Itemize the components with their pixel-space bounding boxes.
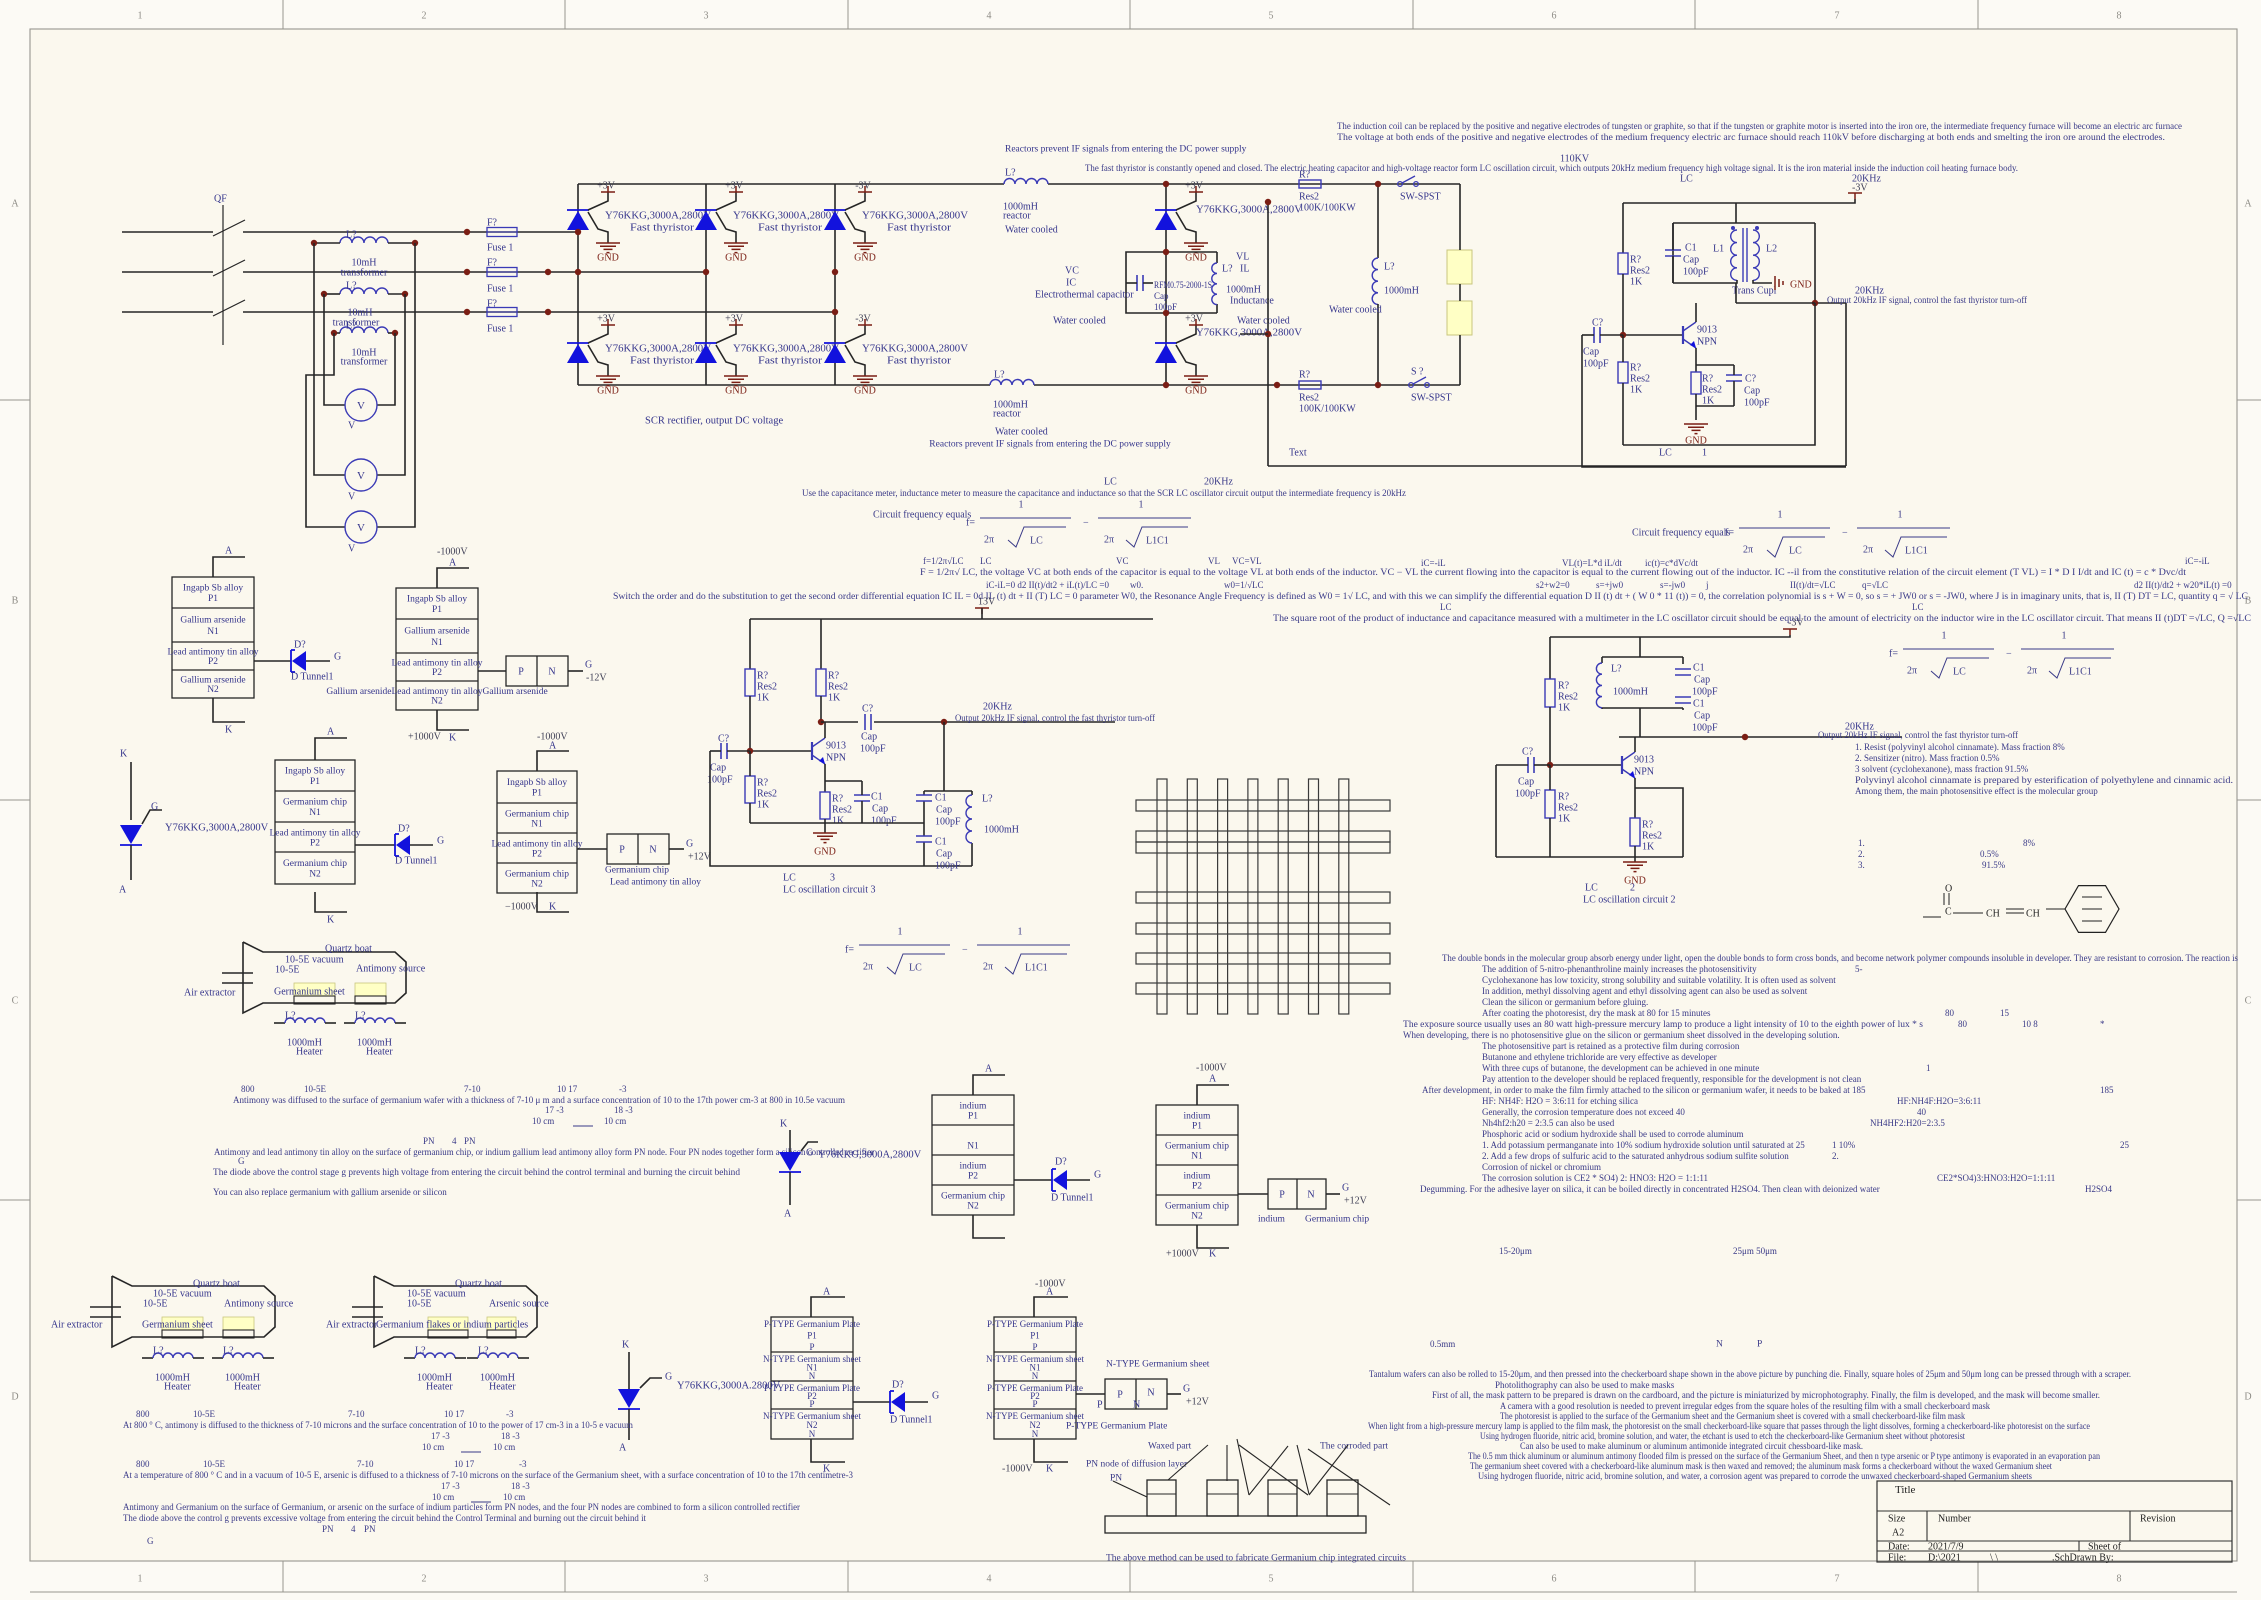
svg-text:Use the capacitance meter, ind: Use the capacitance meter, inductance me… (802, 488, 1406, 498)
svg-text:C1: C1 (1693, 699, 1705, 710)
tunnel diode D? indium1 (1014, 1179, 1052, 1181)
svg-text:Pay attention to the developer: Pay attention to the developer should be… (1482, 1074, 1862, 1084)
svg-text:100pF: 100pF (935, 817, 961, 828)
wire stack E cathode (811, 1439, 845, 1462)
svg-text:L1C1: L1C1 (1146, 536, 1169, 547)
svg-text:1: 1 (138, 11, 143, 22)
svg-text:V: V (357, 400, 365, 412)
capacitor C1 osc2 upper (1675, 669, 1691, 675)
svg-text:2021/7/9: 2021/7/9 (1928, 1542, 1964, 1553)
inductor L? osc2 tank (1596, 663, 1602, 708)
svg-text:Output 20kHz IF signal, contro: Output 20kHz IF signal, control the fast… (955, 713, 1155, 723)
svg-text:Res2: Res2 (1299, 393, 1319, 404)
svg-text:P: P (1032, 1342, 1037, 1352)
svg-text:Fast thyristor: Fast thyristor (758, 356, 823, 367)
wire stack F anode (1034, 1297, 1068, 1317)
svg-text:GND: GND (1624, 876, 1646, 887)
wire osc2 bottom (1496, 856, 1683, 858)
antimony source pedestal 1 (355, 983, 386, 996)
svg-text:3: 3 (704, 11, 709, 22)
svg-text:Germanium chip: Germanium chip (1165, 1201, 1229, 1211)
svg-text:Butanone and ethylene trichlor: Butanone and ethylene trichloride are ve… (1482, 1052, 1717, 1062)
svg-text:P: P (809, 1399, 814, 1409)
svg-text:2π: 2π (1863, 545, 1873, 556)
svg-text:A: A (225, 546, 233, 557)
svg-text:L?: L? (1005, 168, 1016, 179)
reactor L? top (1004, 179, 1048, 184)
heater 3b (467, 1357, 478, 1359)
svg-text:Cap: Cap (1518, 777, 1534, 788)
svg-text:R?: R? (832, 794, 844, 805)
svg-text:R?: R? (1558, 792, 1570, 803)
svg-text:Res2: Res2 (757, 789, 777, 800)
svg-text:GND: GND (1185, 386, 1207, 397)
svg-text:3.: 3. (1858, 860, 1865, 870)
svg-text:4: 4 (987, 1574, 992, 1585)
svg-text:LC: LC (783, 873, 796, 884)
svg-text:Using hydrogen fluoride, nitri: Using hydrogen fluoride, nitric acid, br… (1480, 1431, 1965, 1441)
svg-text:Antimony was diffused to the s: Antimony was diffused to the surface of … (233, 1095, 845, 1105)
tank osc3 vertical (943, 722, 945, 791)
svg-text:LC: LC (1789, 546, 1802, 557)
svg-text:C1: C1 (1693, 663, 1705, 674)
svg-text:Water cooled: Water cooled (1053, 316, 1106, 327)
svg-text:+3V: +3V (597, 181, 616, 192)
svg-text:Lead antimony tin alloy: Lead antimony tin alloy (610, 877, 701, 887)
wire stack F cathode (1034, 1439, 1068, 1462)
svg-text:100pF: 100pF (1583, 359, 1609, 370)
wire gate drive horizontal (1268, 465, 1846, 467)
svg-text:P1: P1 (208, 594, 218, 604)
resistor R? bottom 100K (1299, 381, 1321, 389)
svg-text:The diode above the control st: The diode above the control stage g prev… (213, 1167, 741, 1177)
svg-text:Reactors prevent IF signals fr: Reactors prevent IF signals from enterin… (1005, 143, 1247, 154)
svg-text:1: 1 (1702, 448, 1707, 459)
svg-text:Heater: Heater (426, 1382, 453, 1393)
svg-text:Water cooled: Water cooled (1005, 225, 1058, 236)
svg-text:A2: A2 (1892, 1528, 1904, 1539)
svg-text:Res2: Res2 (1299, 192, 1319, 203)
transformer L1 L2 Trans Cupl (1731, 230, 1737, 280)
svg-text:Y76KKG,3000A,2800V: Y76KKG,3000A,2800V (605, 211, 712, 222)
breaker QF (222, 205, 224, 345)
svg-text:D?: D? (398, 824, 410, 835)
svg-text:GND: GND (597, 386, 619, 397)
svg-text:Germanium chip: Germanium chip (283, 798, 347, 808)
svg-text:V: V (357, 470, 365, 482)
svg-text:P-TYPE Germanium Plate: P-TYPE Germanium Plate (764, 1319, 860, 1329)
svg-text:Res2: Res2 (1558, 692, 1578, 703)
svg-text:Ingapb Sb alloy: Ingapb Sb alloy (285, 767, 345, 777)
svg-text:1000mH: 1000mH (1226, 285, 1261, 296)
resistor R? osc3 base lower (745, 776, 755, 803)
svg-text:10-5E: 10-5E (203, 1459, 225, 1469)
svg-text:q=√LC: q=√LC (1862, 580, 1888, 590)
svg-text:G: G (151, 802, 158, 813)
svg-text:N: N (1032, 1371, 1039, 1381)
capacitor C? osc1 left (1594, 327, 1600, 343)
svg-text:P: P (1032, 1399, 1037, 1409)
svg-text:P1: P1 (1192, 1121, 1202, 1131)
svg-text:800: 800 (136, 1459, 150, 1469)
capacitor C? osc3 base (721, 743, 727, 759)
svg-text:SCR rectifier, output DC volta: SCR rectifier, output DC voltage (645, 416, 783, 427)
svg-text:reactor: reactor (993, 409, 1021, 420)
thyristor top col 4 Y76KKG (1155, 209, 1177, 211)
wire bridge column 4 (1165, 184, 1167, 385)
svg-text:Degumming. For the adhesive la: Degumming. For the adhesive layer on sil… (1420, 1184, 1880, 1194)
svg-text:Res2: Res2 (1642, 831, 1662, 842)
PN box stack F (1076, 1393, 1105, 1395)
resistor R? osc2 left (1549, 637, 1551, 679)
svg-text:L?: L? (1384, 262, 1395, 273)
svg-text:VL: VL (1236, 252, 1249, 263)
svg-text:100pF: 100pF (1515, 789, 1541, 800)
svg-text:C1: C1 (1685, 243, 1697, 254)
svg-text:P: P (1097, 1400, 1103, 1411)
svg-text:17 -3: 17 -3 (431, 1431, 450, 1441)
junction dots bridge (575, 229, 581, 235)
svg-text:V: V (348, 544, 356, 555)
svg-text:H2SO4: H2SO4 (2085, 1184, 2113, 1194)
svg-text:L2: L2 (1766, 244, 1777, 255)
svg-text:18 -3: 18 -3 (614, 1105, 633, 1115)
svg-text:Can also be used to make alumi: Can also be used to make aluminum or alu… (1520, 1441, 1863, 1451)
svg-text:100pF: 100pF (707, 775, 733, 786)
svg-text:The double bonds in the molecu: The double bonds in the molecular group … (1442, 953, 2238, 963)
svg-text:K: K (120, 749, 128, 760)
svg-text:LC: LC (1440, 602, 1452, 612)
svg-text:Size: Size (1888, 1514, 1906, 1525)
junction dots col4 (1163, 249, 1169, 255)
svg-text:18 -3: 18 -3 (501, 1431, 520, 1441)
svg-text:The addition of 5-nitro-phenan: The addition of 5-nitro-phenanthroline m… (1482, 964, 1757, 974)
svg-text:2π: 2π (1743, 545, 1753, 556)
svg-text:N2: N2 (967, 1201, 979, 1211)
svg-text:2. Sensitizer (nitro). Mass fr: 2. Sensitizer (nitro). Mass fraction 0.5… (1855, 753, 2000, 763)
wire osc3 top (750, 618, 1153, 620)
svg-text:Heater: Heater (234, 1382, 261, 1393)
heater 1a (274, 1022, 285, 1024)
pedestal 3b (487, 1317, 516, 1330)
svg-text:−: − (962, 945, 968, 956)
svg-text:f=: f= (966, 518, 975, 529)
svg-text:The square root of the product: The square root of the product of induct… (1273, 613, 2251, 623)
svg-text:Fuse 1: Fuse 1 (487, 243, 513, 254)
svg-text:Among them, the main photosens: Among them, the main photosensitive effe… (1855, 786, 2098, 796)
svg-text:R?: R? (828, 671, 840, 682)
svg-text:+12V: +12V (1344, 1196, 1368, 1207)
svg-text:GND: GND (1185, 253, 1207, 264)
wire bridge column 1 (577, 184, 579, 385)
svg-text:100pF: 100pF (860, 744, 886, 755)
svg-text:+3V: +3V (725, 314, 744, 325)
heater 3a (404, 1357, 415, 1359)
svg-text:8%: 8% (2023, 838, 2036, 848)
svg-text:D?: D? (1055, 1157, 1067, 1168)
svg-text:R?: R? (1642, 820, 1654, 831)
svg-text:C1: C1 (935, 837, 947, 848)
germanium pedestal 3a (428, 1317, 468, 1330)
svg-text:Fuse 1: Fuse 1 (487, 324, 513, 335)
thyristor bottom col 1 Y76KKG (567, 342, 589, 344)
svg-text:-1000V: -1000V (1002, 1464, 1033, 1475)
svg-text:7-10: 7-10 (348, 1409, 365, 1419)
svg-text:L?: L? (346, 230, 357, 241)
svg-text:Germanium flakes or indium par: Germanium flakes or indium particles (376, 1320, 528, 1331)
tunnel diode D? stack C (355, 844, 395, 846)
svg-text:6: 6 (1552, 11, 1557, 22)
svg-text:1K: 1K (1630, 277, 1643, 288)
benzene ring (2065, 886, 2119, 933)
stack indium 1 (932, 1095, 1014, 1215)
svg-text:5: 5 (1269, 11, 1274, 22)
svg-text:−: − (1083, 518, 1089, 529)
svg-text:Res2: Res2 (828, 682, 848, 693)
svg-text:Water cooled: Water cooled (1237, 316, 1290, 327)
svg-text:P: P (1279, 1190, 1285, 1201)
svg-text:Circuit frequency equals: Circuit frequency equals (1632, 528, 1730, 539)
svg-text:V: V (348, 421, 356, 432)
svg-text:VL: VL (1208, 556, 1220, 566)
svg-text:O: O (1945, 884, 1952, 895)
svg-text:A: A (119, 885, 127, 896)
svg-text:1: 1 (898, 927, 903, 938)
svg-text:Res2: Res2 (1630, 266, 1650, 277)
svg-text:w0.: w0. (1130, 580, 1143, 590)
svg-text:-3: -3 (619, 1084, 627, 1094)
svg-text:indium: indium (1258, 1214, 1286, 1224)
germanium sheet pedestal 1 (294, 983, 335, 996)
svg-text:−: − (1842, 528, 1848, 539)
svg-text:LC: LC (1659, 448, 1672, 459)
svg-text:The photoresist is applied to: The photoresist is applied to the surfac… (1500, 1411, 1965, 1421)
svg-text:Gallium arsenide: Gallium arsenide (180, 616, 245, 626)
svg-text:V: V (357, 522, 365, 534)
svg-text:1: 1 (2062, 631, 2067, 642)
svg-text:NPN: NPN (1634, 767, 1654, 778)
svg-text:20KHz: 20KHz (1204, 477, 1233, 488)
svg-text:A: A (823, 1287, 831, 1298)
svg-text:Fast thyristor: Fast thyristor (630, 223, 695, 234)
svg-text:D: D (11, 1392, 18, 1403)
svg-text:N: N (1307, 1190, 1314, 1201)
svg-text:13V: 13V (978, 597, 996, 608)
svg-text:LC: LC (1030, 536, 1043, 547)
svg-text:NH4HF2:H20=2:3.5: NH4HF2:H20=2:3.5 (1870, 1118, 1945, 1128)
svg-text:A: A (1209, 1074, 1217, 1085)
svg-text:N: N (1716, 1339, 1723, 1349)
voltmeter V2 (345, 459, 377, 491)
svg-text:2: 2 (422, 1574, 427, 1585)
transformer L? coil 2 (340, 288, 388, 294)
svg-text:P-TYPE Germanium Plate: P-TYPE Germanium Plate (1066, 1421, 1167, 1431)
svg-text:VC=VL: VC=VL (1232, 556, 1262, 566)
svg-text:Output 20kHz IF signal, contro: Output 20kHz IF signal, control the fast… (1827, 295, 2027, 305)
svg-text:QF: QF (214, 194, 227, 205)
wire bridge column 3 (834, 184, 836, 385)
svg-text:Germanium chip: Germanium chip (505, 869, 569, 879)
svg-text:L1C1: L1C1 (1025, 963, 1048, 974)
svg-text:1: 1 (1926, 1063, 1931, 1073)
junction dots bottom bus (1274, 382, 1280, 388)
svg-text:N2: N2 (431, 697, 443, 707)
svg-text:-3: -3 (519, 1459, 527, 1469)
wire osc1 top (1623, 199, 1855, 203)
svg-text:A: A (1046, 1287, 1054, 1298)
svg-text:Res2: Res2 (757, 682, 777, 693)
svg-text:2.: 2. (1832, 1151, 1839, 1161)
svg-text:4: 4 (987, 11, 992, 22)
svg-text:The photosensitive part is ret: The photosensitive part is retained as a… (1482, 1041, 1740, 1051)
resistor R? osc3 collector (820, 619, 822, 669)
svg-text:N: N (1133, 1400, 1140, 1411)
tank box osc1 (1673, 222, 1815, 224)
resistor R? top 100K (1299, 180, 1321, 188)
wire bridge column 2 (705, 184, 707, 385)
svg-text:j: j (1705, 580, 1709, 590)
svg-text:CH: CH (2026, 909, 2040, 920)
svg-text:Y76KKG,3000A,2800V: Y76KKG,3000A,2800V (862, 211, 969, 222)
svg-text:L?: L? (285, 1011, 296, 1022)
svg-text:1000mH: 1000mH (984, 825, 1019, 836)
svg-text:N1: N1 (431, 638, 443, 648)
svg-text:5: 5 (1269, 1574, 1274, 1585)
resistor R? osc3 left top (749, 619, 751, 669)
gnd osc1 transformer (1753, 280, 1772, 283)
svg-text:Fast thyristor: Fast thyristor (887, 356, 952, 367)
svg-text:1000mH: 1000mH (1384, 286, 1419, 297)
svg-text:Cap: Cap (1154, 291, 1169, 301)
svg-text:3: 3 (704, 1574, 709, 1585)
svg-text:800: 800 (136, 1409, 150, 1419)
svg-text:s=-jw0: s=-jw0 (1660, 580, 1686, 590)
svg-text:LC oscillation circuit 3: LC oscillation circuit 3 (783, 885, 875, 896)
svg-text:Y76KKG,3000A,2800V: Y76KKG,3000A,2800V (1196, 328, 1303, 339)
svg-text:Cyclohexanone has low toxicity: Cyclohexanone has low toxicity, strong s… (1482, 975, 1836, 985)
svg-text:When developing, there is no p: When developing, there is no photosensit… (1403, 1030, 1840, 1040)
svg-text:GND: GND (597, 253, 619, 264)
svg-text:The 0.5 mm thick aluminum or a: The 0.5 mm thick aluminum or aluminum an… (1468, 1451, 2100, 1461)
svg-text:N: N (649, 845, 656, 856)
svg-text:C: C (12, 996, 19, 1007)
svg-text:C1: C1 (935, 793, 947, 804)
svg-text:Using hydrogen fluoride, nitri: Using hydrogen fluoride, nitric acid, br… (1478, 1471, 2032, 1481)
svg-text:2π: 2π (2027, 666, 2037, 677)
svg-text:N2: N2 (309, 870, 321, 880)
svg-text:P: P (619, 845, 625, 856)
svg-text:Generally, the corrosion tempe: Generally, the corrosion temperature doe… (1482, 1107, 1685, 1117)
svg-text:P2: P2 (208, 657, 218, 667)
svg-text:1: 1 (138, 1574, 143, 1585)
svg-text:+1000V: +1000V (1166, 1249, 1200, 1260)
svg-text:S ?: S ? (1411, 367, 1424, 378)
svg-text:C?: C? (1522, 747, 1534, 758)
svg-text:10 cm: 10 cm (532, 1116, 554, 1126)
svg-text:N: N (548, 667, 555, 678)
wire osc3 outer loop (710, 751, 924, 866)
svg-text:N: N (809, 1429, 816, 1439)
resistor R? osc1 emitter (1695, 348, 1697, 372)
svg-text:Y76KKG,3000A,2800V: Y76KKG,3000A,2800V (733, 211, 840, 222)
svg-text:1: 1 (1018, 927, 1023, 938)
svg-text:The corroded part: The corroded part (1320, 1441, 1388, 1451)
svg-text:40: 40 (1917, 1107, 1927, 1117)
svg-text:17 -3: 17 -3 (441, 1481, 460, 1491)
svg-text:10-5E: 10-5E (275, 965, 299, 976)
heater 2b (212, 1357, 223, 1359)
svg-text:IC: IC (1066, 278, 1076, 289)
svg-text:Y76KKG,3000A,2800V: Y76KKG,3000A,2800V (1196, 205, 1303, 216)
svg-text:A: A (2244, 199, 2252, 210)
quartz boat 1 (243, 942, 406, 1013)
svg-text:GND: GND (725, 253, 747, 264)
svg-text:L?: L? (223, 1346, 234, 1357)
wire osc3 bottom (750, 822, 924, 824)
svg-text:15: 15 (2000, 1008, 2010, 1018)
svg-text:2: 2 (1630, 883, 1635, 894)
svg-text:K: K (1209, 1249, 1217, 1260)
svg-text:G: G (665, 1372, 672, 1383)
svg-text:GND: GND (854, 253, 876, 264)
svg-text:N1: N1 (1191, 1151, 1203, 1161)
svg-text:10 cm: 10 cm (422, 1442, 444, 1452)
svg-text:91.5%: 91.5% (1982, 860, 2006, 870)
svg-text:100pF: 100pF (1744, 398, 1770, 409)
svg-text:Fast thyristor: Fast thyristor (630, 356, 695, 367)
svg-text:Revision: Revision (2140, 1514, 2176, 1525)
svg-text:2. Add a few drops of sulfuric: 2. Add a few drops of sulfuric acid to t… (1482, 1151, 1789, 1161)
svg-text:P1: P1 (432, 605, 442, 615)
svg-text:1K: 1K (757, 693, 770, 704)
wire stack B cathode (437, 710, 469, 730)
quartz boat 2 (112, 1276, 275, 1347)
wire stack A cathode (213, 698, 245, 722)
svg-text:File:: File: (1888, 1553, 1906, 1564)
svg-text:G: G (334, 652, 341, 663)
svg-text:Ingapb Sb alloy: Ingapb Sb alloy (183, 584, 243, 594)
stack E P-TYPE (771, 1317, 853, 1439)
svg-text:Fast thyristor: Fast thyristor (887, 223, 952, 234)
stack D germanium chip 2 (497, 771, 577, 893)
svg-text:Date:: Date: (1888, 1542, 1910, 1553)
svg-text:A: A (11, 199, 19, 210)
svg-text:R?: R? (757, 778, 769, 789)
svg-text:10 cm: 10 cm (493, 1442, 515, 1452)
svg-text:4: 4 (351, 1524, 356, 1534)
svg-text:Number: Number (1938, 1514, 1971, 1525)
svg-text:4: 4 (452, 1136, 457, 1146)
svg-text:indium: indium (960, 1161, 988, 1171)
resistor R? osc1 top (1618, 253, 1628, 274)
svg-text:Nh4hf2:h20 = 2:3.5 can also be: Nh4hf2:h20 = 2:3.5 can also be used (1482, 1118, 1615, 1128)
inductor L? inductance (1212, 263, 1217, 305)
svg-text:D?: D? (892, 1380, 904, 1391)
svg-text:1. Add potassium permanganate: 1. Add potassium permanganate into 10% s… (1482, 1140, 1805, 1150)
stack indium 2 (1156, 1105, 1238, 1225)
svg-text:G: G (686, 839, 693, 850)
svg-text:1: 1 (1019, 500, 1024, 511)
svg-text:P2: P2 (1192, 1181, 1202, 1191)
svg-text:800: 800 (241, 1084, 255, 1094)
svg-text:VC: VC (1065, 266, 1079, 277)
wire stack C cathode (315, 892, 347, 912)
svg-text:1K: 1K (1702, 396, 1715, 407)
svg-text:10 8: 10 8 (2022, 1019, 2038, 1029)
svg-text:N2: N2 (207, 685, 219, 695)
svg-text:Ingapb Sb alloy: Ingapb Sb alloy (507, 778, 567, 788)
svg-text:R?: R? (1558, 681, 1570, 692)
